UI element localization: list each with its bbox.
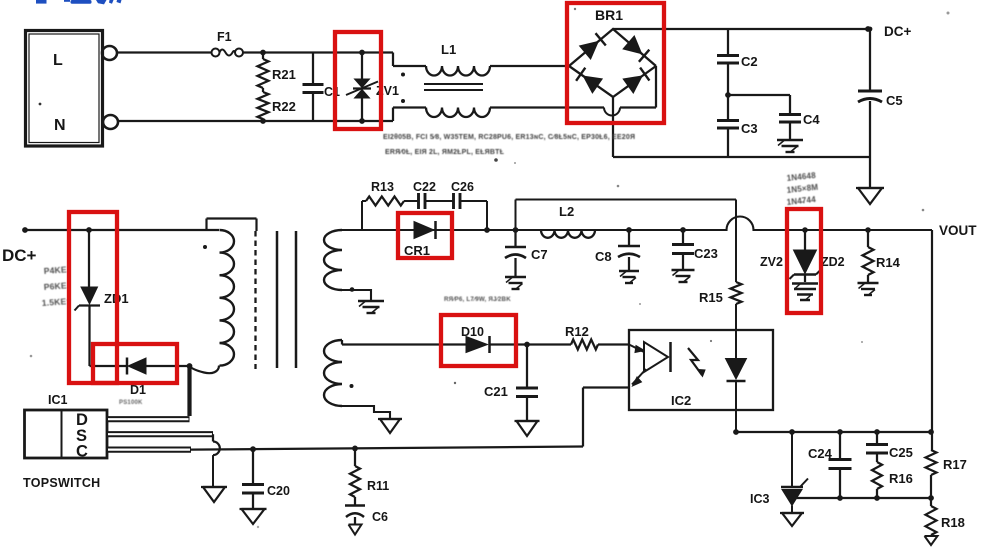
svg-text:R11: R11 <box>367 479 389 493</box>
svg-text:ZV2: ZV2 <box>760 255 783 269</box>
svg-text:C7: C7 <box>531 247 548 262</box>
svg-text:L1: L1 <box>441 42 456 57</box>
svg-text:D10: D10 <box>461 325 484 339</box>
svg-text:C: C <box>76 443 88 461</box>
svg-text:R21: R21 <box>272 67 296 82</box>
svg-text:C2: C2 <box>741 54 758 69</box>
svg-text:C8: C8 <box>595 249 612 264</box>
svg-text:R22: R22 <box>272 99 296 114</box>
svg-text:DC+: DC+ <box>884 24 911 39</box>
svg-text:C24: C24 <box>808 446 833 461</box>
svg-text:C20: C20 <box>267 484 290 498</box>
svg-text:IC2: IC2 <box>671 393 691 408</box>
svg-text:C22: C22 <box>413 180 436 194</box>
svg-text:R13: R13 <box>371 180 394 194</box>
svg-text:N: N <box>54 117 66 134</box>
svg-text:C6: C6 <box>372 510 388 524</box>
svg-text:C4: C4 <box>803 112 820 127</box>
svg-text:C21: C21 <box>484 384 508 399</box>
svg-text:CR1: CR1 <box>404 243 430 258</box>
svg-text:F1: F1 <box>217 30 232 44</box>
svg-text:R15: R15 <box>699 290 723 305</box>
svg-text:EI2θ05B, FCI 5∕8, W35TEM, RC28: EI2θ05B, FCI 5∕8, W35TEM, RC28PU6, ER13ɴ… <box>383 134 635 141</box>
svg-text:P4KE: P4KE <box>43 264 67 276</box>
svg-text:ZD2: ZD2 <box>821 255 845 269</box>
svg-text:R14: R14 <box>876 255 901 270</box>
svg-text:IC1: IC1 <box>48 393 68 407</box>
svg-text:C5: C5 <box>886 93 903 108</box>
svg-text:R18: R18 <box>941 515 965 530</box>
svg-text:R17: R17 <box>943 457 967 472</box>
svg-text:C26: C26 <box>451 180 474 194</box>
svg-text:P6KE: P6KE <box>43 280 67 292</box>
svg-text:C25: C25 <box>889 445 913 460</box>
svg-text:C1: C1 <box>324 85 340 99</box>
svg-text:TOPSWITCH: TOPSWITCH <box>23 476 100 490</box>
svg-text:DC+: DC+ <box>2 246 37 265</box>
svg-text:ERЯ∕0Ƚ, EIЯ 2L, ЯM2ȽPL, EȽЯBTȽ: ERЯ∕0Ƚ, EIЯ 2L, ЯM2ȽPL, EȽЯBTȽ <box>385 149 505 156</box>
svg-text:L: L <box>53 52 63 69</box>
svg-text:L2: L2 <box>559 204 574 219</box>
svg-text:RЯ∕P6, L7∕9W, ЯJ∕2BK: RЯ∕P6, L7∕9W, ЯJ∕2BK <box>444 296 511 303</box>
svg-text:BR1: BR1 <box>595 7 623 23</box>
svg-text:C3: C3 <box>741 121 758 136</box>
svg-text:PS100K: PS100K <box>119 400 143 406</box>
svg-text:R12: R12 <box>565 324 589 339</box>
svg-text:VOUT: VOUT <box>939 223 977 238</box>
svg-text:C23: C23 <box>694 246 718 261</box>
svg-text:IC3: IC3 <box>750 492 770 506</box>
svg-text:R16: R16 <box>889 471 913 486</box>
